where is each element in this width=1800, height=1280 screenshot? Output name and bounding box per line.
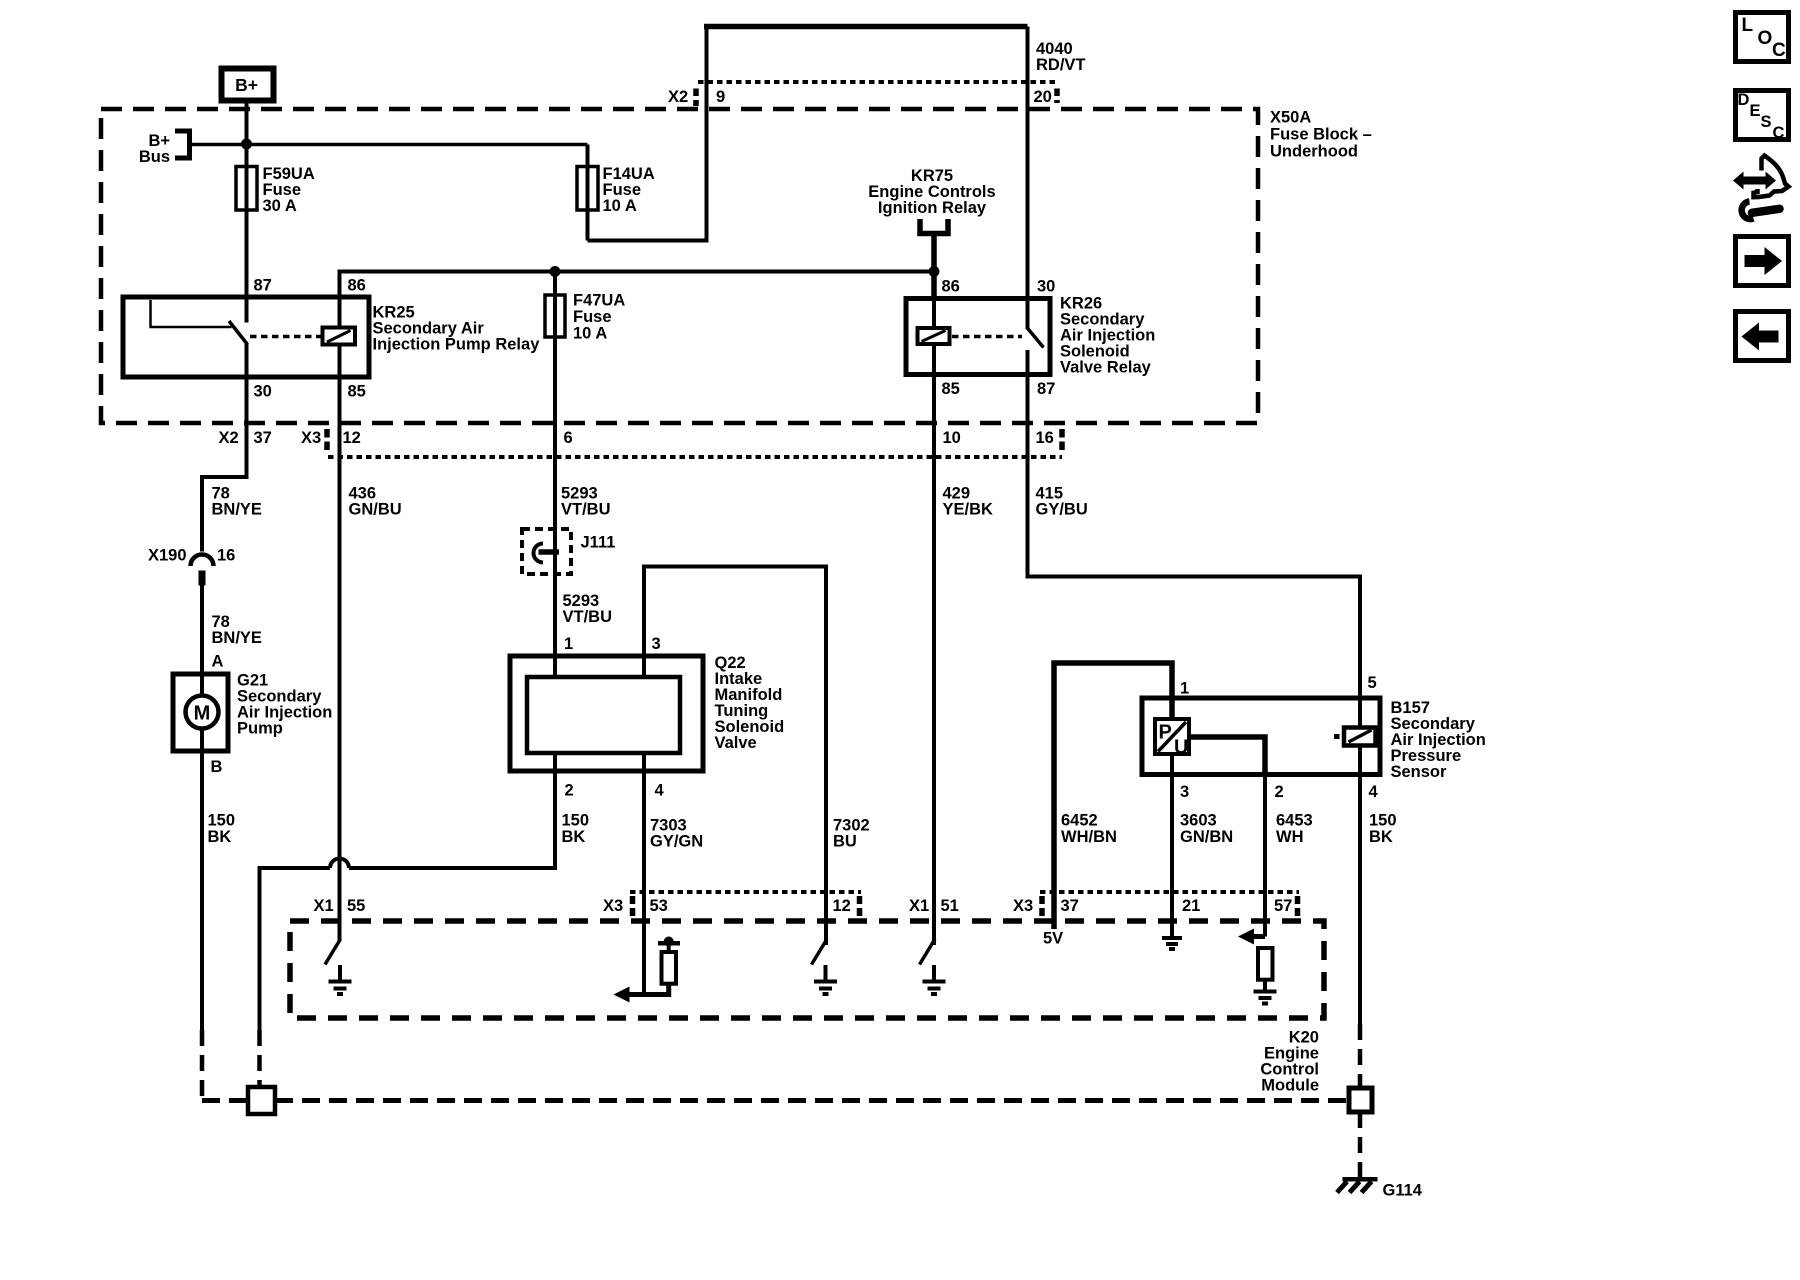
fuse F59UA 30A xyxy=(236,165,315,297)
svg-text:6: 6 xyxy=(564,429,573,447)
svg-text:GN/BN: GN/BN xyxy=(1180,828,1233,846)
node splice square right xyxy=(1349,1088,1372,1112)
label wire 78 BN/YE upper xyxy=(212,485,262,519)
svg-text:86: 86 xyxy=(348,277,366,295)
svg-text:J111: J111 xyxy=(581,534,616,552)
label wire 7302 BU xyxy=(833,817,870,851)
svg-text:X3: X3 xyxy=(603,897,623,915)
svg-text:X3: X3 xyxy=(1013,897,1033,915)
wire 415 GY/BU KR26 pin87 to B157 pin5 xyxy=(1028,375,1361,699)
svg-text:10 A: 10 A xyxy=(573,325,607,343)
svg-text:55: 55 xyxy=(347,897,365,915)
wire F14UA to X2-9 riser xyxy=(588,27,707,241)
svg-text:VT/BU: VT/BU xyxy=(563,608,613,626)
icon forward arrow button xyxy=(1736,237,1789,286)
wire X190 to pump G21 xyxy=(200,586,204,675)
valve Q22 Intake Manifold Tuning Solenoid Valve xyxy=(510,635,784,800)
svg-text:30 A: 30 A xyxy=(263,197,297,215)
svg-text:Valve Relay: Valve Relay xyxy=(1060,359,1152,377)
wire 150 BK pump down xyxy=(200,751,204,1030)
svg-text:B: B xyxy=(211,758,223,776)
svg-text:6453: 6453 xyxy=(1276,812,1313,830)
svg-text:Sensor: Sensor xyxy=(1391,763,1448,781)
B+ Bus tap bracket xyxy=(139,131,190,166)
svg-text:GN/BU: GN/BU xyxy=(349,501,402,519)
svg-text:Fuse: Fuse xyxy=(573,308,612,326)
svg-text:37: 37 xyxy=(1061,897,1079,915)
svg-text:Valve: Valve xyxy=(715,734,757,752)
wire 429 YE/BK KR26 pin85 to ECM xyxy=(932,375,936,946)
svg-text:GY/BU: GY/BU xyxy=(1036,501,1088,519)
wire B+ bus horizontal xyxy=(190,143,588,147)
icon back arrow button xyxy=(1736,312,1789,361)
splice J111 xyxy=(522,529,615,574)
svg-text:X2: X2 xyxy=(668,88,688,106)
label wire 78 BN/YE lower xyxy=(212,613,262,647)
connector X3 dotted row ECM left xyxy=(603,892,861,916)
node F47UA junction xyxy=(550,266,561,277)
wire B+ down to fuse F59UA xyxy=(245,103,249,166)
svg-text:C: C xyxy=(1773,124,1785,142)
svg-text:BN/YE: BN/YE xyxy=(212,629,262,647)
svg-text:VT/BU: VT/BU xyxy=(561,501,611,519)
fuse block X50A dashed box xyxy=(101,109,1258,423)
svg-text:E: E xyxy=(1750,102,1761,120)
svg-text:1: 1 xyxy=(1180,680,1189,698)
svg-text:4: 4 xyxy=(1369,783,1379,801)
svg-text:Fuse Block –: Fuse Block – xyxy=(1270,126,1372,144)
ECM pin 12 switch to ground xyxy=(812,939,838,994)
label wire 6452 WH/BN xyxy=(1061,812,1117,847)
svg-text:X1: X1 xyxy=(909,897,929,915)
svg-text:C: C xyxy=(1772,40,1786,61)
svg-text:21: 21 xyxy=(1182,897,1200,915)
svg-text:P: P xyxy=(1159,722,1172,744)
wire 436 GN/BU KR25 pin85 to ECM xyxy=(338,377,342,941)
svg-text:12: 12 xyxy=(343,429,361,447)
ground bus dashed main xyxy=(275,1098,1349,1103)
svg-text:87: 87 xyxy=(1037,380,1055,398)
connector X2 top dotted row xyxy=(668,82,1059,106)
svg-text:2: 2 xyxy=(565,782,574,800)
svg-text:Bus: Bus xyxy=(139,148,170,166)
wire dashed 150BK pump to bus xyxy=(200,1030,205,1098)
svg-text:37: 37 xyxy=(254,429,272,447)
wire 6453 WH B157 pin2 to ECM 57 xyxy=(1263,775,1267,937)
svg-text:Module: Module xyxy=(1261,1077,1319,1095)
sensor B157 Secondary Air Injection Pressure Sensor xyxy=(1142,674,1486,801)
svg-text:X2: X2 xyxy=(219,429,239,447)
wire 6452 WH/BN B157 pin1 to ECM 5V xyxy=(1054,663,1172,929)
svg-text:16: 16 xyxy=(1036,429,1054,447)
svg-text:3: 3 xyxy=(652,635,661,653)
connector X2/X3 row below fuse block xyxy=(219,429,1063,457)
pin X1 51 label xyxy=(909,897,959,915)
label wire 3603 GN/BN xyxy=(1180,812,1233,847)
ECM pin 51 switch to ground xyxy=(920,939,946,994)
node splice square left xyxy=(248,1087,275,1114)
svg-text:20: 20 xyxy=(1034,88,1052,106)
pump G21 Secondary Air Injection Pump xyxy=(173,672,332,752)
label wire 150 BK right xyxy=(1369,812,1397,847)
ground G114 xyxy=(1337,1177,1423,1200)
ground bus dashed left stub xyxy=(202,1098,248,1103)
svg-text:X3: X3 xyxy=(301,429,321,447)
B+ terminal xyxy=(222,69,274,101)
svg-text:16: 16 xyxy=(217,547,235,565)
wire Q22 pin4 7303 GY/GN to ECM xyxy=(642,771,646,996)
fuse F47UA 10A xyxy=(545,272,625,657)
svg-text:9: 9 xyxy=(716,88,725,106)
relay KR26 Secondary Air Injection Solenoid Valve Relay xyxy=(906,278,1155,399)
svg-text:150: 150 xyxy=(1369,812,1397,830)
wire 3603 GN/BN B157 pin3 to ECM 21 xyxy=(1170,754,1174,936)
svg-text:5V: 5V xyxy=(1043,930,1063,948)
svg-text:F47UA: F47UA xyxy=(573,292,625,310)
svg-text:12: 12 xyxy=(833,897,851,915)
svg-text:X50A: X50A xyxy=(1270,109,1311,127)
icon DESC button xyxy=(1736,91,1789,143)
wire 150 BK B157 pin4 down xyxy=(1358,775,1362,1025)
svg-text:1: 1 xyxy=(564,635,573,653)
svg-text:4: 4 xyxy=(655,782,665,800)
svg-text:30: 30 xyxy=(254,383,272,401)
svg-text:Ignition Relay: Ignition Relay xyxy=(878,199,987,217)
wire 4040 top run xyxy=(704,24,1028,30)
svg-text:U: U xyxy=(1174,737,1188,759)
node KR75 junction xyxy=(929,266,940,277)
wire dashed square to G114 xyxy=(1358,1112,1363,1178)
relay KR75 tap xyxy=(868,167,995,299)
wire 4040 down to KR26 pin 30 xyxy=(1026,27,1030,299)
wire relay feed horizontal 271 xyxy=(340,272,935,298)
svg-text:RD/VT: RD/VT xyxy=(1036,56,1086,74)
wire bus corner down to F14UA xyxy=(586,145,590,167)
svg-text:BN/YE: BN/YE xyxy=(212,501,262,519)
wire dashed 150BK right to square xyxy=(1358,1024,1363,1088)
svg-text:D: D xyxy=(1738,91,1750,109)
relay KR25 Secondary Air Injection Pump Relay xyxy=(123,277,540,401)
ECM pin 57 signal arrow and pull-down xyxy=(1238,929,1277,1004)
connector X3 dotted row ECM right xyxy=(1013,892,1299,916)
connector X190 xyxy=(148,547,235,586)
svg-text:BK: BK xyxy=(208,828,232,846)
label wire 7303 GY/GN xyxy=(650,817,703,851)
wire dashed 150BK valve to bus xyxy=(257,1030,262,1087)
label X50A Fuse Block Underhood xyxy=(1270,109,1372,161)
svg-text:M: M xyxy=(194,703,211,725)
svg-text:X1: X1 xyxy=(314,897,334,915)
label wire 6453 WH xyxy=(1276,812,1313,847)
svg-text:X190: X190 xyxy=(148,547,187,565)
svg-text:150: 150 xyxy=(562,812,590,830)
svg-text:85: 85 xyxy=(348,383,366,401)
label wire 150 BK pump xyxy=(208,812,236,847)
label wire 5293 VT/BU lower xyxy=(563,592,613,626)
node B+ bus junction xyxy=(241,139,252,150)
svg-text:YE/BK: YE/BK xyxy=(943,501,994,519)
label wire 436 GN/BU xyxy=(349,485,402,519)
svg-text:2: 2 xyxy=(1275,783,1284,801)
svg-text:86: 86 xyxy=(942,278,960,296)
svg-text:Injection Pump Relay: Injection Pump Relay xyxy=(373,336,541,354)
svg-text:WH: WH xyxy=(1276,828,1304,846)
svg-text:51: 51 xyxy=(941,897,959,915)
module K20 ECM dashed box xyxy=(290,921,1324,1018)
label wire 429 YE/BK xyxy=(943,485,994,519)
svg-text:A: A xyxy=(212,653,224,671)
label wire 5293 VT/BU upper xyxy=(561,485,611,519)
svg-text:87: 87 xyxy=(254,277,272,295)
svg-text:85: 85 xyxy=(942,380,960,398)
fuse F14UA 10A xyxy=(577,165,655,241)
svg-text:6452: 6452 xyxy=(1061,812,1098,830)
label wire 4040 RD/VT xyxy=(1036,40,1086,74)
svg-text:10: 10 xyxy=(943,429,961,447)
pin X1 55 label xyxy=(314,897,366,915)
svg-text:WH/BN: WH/BN xyxy=(1061,828,1117,846)
label wire 150 BK valve xyxy=(562,812,590,847)
ECM pin 53 pull-up and signal arrow xyxy=(614,937,681,1003)
wire Q22 pin2 150 BK to ground bus xyxy=(260,771,556,1030)
icon LOC button xyxy=(1736,13,1789,62)
svg-text:150: 150 xyxy=(208,812,236,830)
svg-text:G114: G114 xyxy=(1383,1182,1423,1200)
svg-text:3603: 3603 xyxy=(1180,812,1217,830)
label wire 415 GY/BU xyxy=(1036,485,1088,519)
wire KR25 pin30 jog to X190 xyxy=(202,377,247,552)
svg-text:Pump: Pump xyxy=(237,720,283,738)
svg-text:O: O xyxy=(1758,28,1773,49)
svg-text:L: L xyxy=(1742,15,1754,36)
label K20 Engine Control Module xyxy=(1260,1029,1319,1095)
svg-text:BU: BU xyxy=(833,833,857,851)
ECM pin 55 switch to ground xyxy=(325,939,352,994)
svg-text:BK: BK xyxy=(1369,828,1393,846)
svg-text:3: 3 xyxy=(1180,783,1189,801)
ECM pin 21 ground xyxy=(1162,938,1182,949)
svg-text:10 A: 10 A xyxy=(603,197,637,215)
svg-text:Underhood: Underhood xyxy=(1270,143,1358,161)
icon diagnostic tool xyxy=(1733,156,1789,220)
svg-text:5: 5 xyxy=(1368,674,1377,692)
svg-text:57: 57 xyxy=(1274,897,1292,915)
svg-text:S: S xyxy=(1761,113,1772,131)
wire Q22 pin3 to 7302 riser xyxy=(644,567,826,946)
svg-text:B+: B+ xyxy=(235,75,258,95)
svg-text:BK: BK xyxy=(562,828,586,846)
svg-text:GY/GN: GY/GN xyxy=(650,833,703,851)
svg-text:53: 53 xyxy=(650,897,668,915)
svg-text:30: 30 xyxy=(1037,278,1055,296)
